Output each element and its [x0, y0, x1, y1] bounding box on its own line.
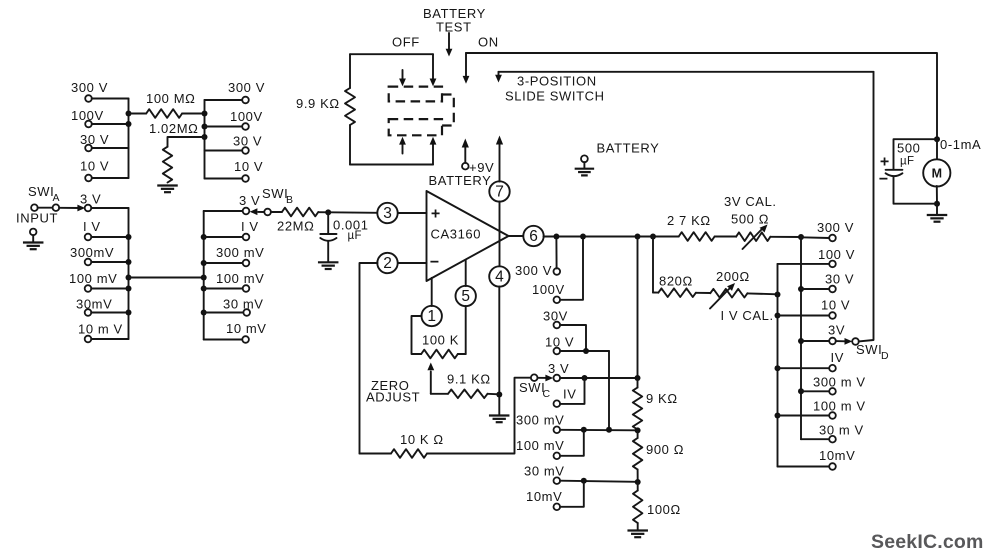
wire 1V row [91, 236, 128, 238]
wire 300V right [205, 99, 243, 101]
potentiometer 500 ohm (3V CAL) [736, 232, 770, 241]
resistor 820 ohm [658, 288, 696, 297]
node 3V terminal (SWID) [829, 338, 836, 345]
node 300mV terminal (SWID) [829, 388, 836, 395]
svg-text:0-1mA: 0-1mA [940, 137, 981, 152]
pin 1 [422, 306, 442, 326]
svg-text:100 mV: 100 mV [216, 271, 264, 286]
wire 3V row [91, 207, 128, 209]
svg-text:B: B [286, 194, 293, 206]
wire OFF loop top [350, 53, 433, 55]
svg-text:3 V: 3 V [80, 192, 101, 207]
svg-text:−: − [879, 171, 888, 188]
svg-text:+9V: +9V [469, 160, 494, 175]
node 100mV terminal [85, 285, 92, 292]
svg-text:300 V: 300 V [228, 80, 265, 95]
wire 10V right [205, 178, 243, 180]
wire SWIC 30mV row [560, 481, 638, 482]
wire SWIC 300mV row [560, 429, 638, 432]
arrow 500 pot wiper [743, 229, 763, 249]
wire SWIC 10mV right+up [560, 481, 584, 507]
node 30V right terminal [242, 147, 249, 154]
svg-text:3 V: 3 V [239, 193, 260, 208]
wire SWIB wiper [258, 211, 264, 213]
arrow battery test [448, 33, 450, 50]
svg-text:I V: I V [241, 219, 259, 234]
switch slide body upper (dashed) [389, 87, 442, 102]
wire 10mV row [91, 338, 128, 340]
ground below meter [927, 215, 948, 222]
svg-text:300 V: 300 V [515, 263, 552, 278]
ground at INPUT [23, 229, 44, 250]
junction meter top [934, 136, 940, 142]
wire pin3 to opamp [398, 212, 427, 214]
node 10mV terminal [85, 336, 92, 343]
switch slide body lower (dashed) [389, 119, 442, 135]
junction 9K/900 [635, 427, 641, 433]
wire SWID 10mV row [778, 466, 830, 468]
junction 22M/cap node [325, 209, 331, 215]
junction 3VCAL/bus1 [798, 234, 804, 240]
wire 820 to 200 pot [696, 292, 710, 294]
wire cap500 top lead [894, 139, 938, 169]
svg-text:100V: 100V [532, 282, 565, 297]
resistor 100 Mohm [146, 109, 182, 118]
wire left bus (upper-left group) [128, 99, 130, 179]
svg-text:4: 4 [495, 269, 504, 286]
wire pin5 to triangle [465, 260, 467, 286]
potentiometer 200 ohm (1V CAL) [710, 289, 747, 298]
svg-text:300mV: 300mV [70, 245, 114, 260]
wire right bus (upper-left group) [204, 100, 206, 179]
wire +9V up arrow [464, 146, 466, 163]
svg-text:D: D [881, 350, 889, 362]
node 10V left terminal [85, 175, 92, 182]
node 10mV terminal (SWIB) [242, 336, 249, 343]
node 1V terminal (SWID) [829, 365, 836, 372]
arrow pot wiper [427, 363, 434, 371]
svg-text:300 mV: 300 mV [516, 413, 564, 428]
svg-text:200Ω: 200Ω [716, 269, 750, 284]
svg-text:100V: 100V [71, 108, 104, 123]
svg-text:I V CAL.: I V CAL. [721, 308, 774, 323]
wire apex to pin6 [509, 235, 524, 237]
svg-text:3-POSITION: 3-POSITION [517, 74, 597, 89]
svg-text:CA3160: CA3160 [431, 227, 482, 242]
node 10V terminal (SWID) [829, 312, 836, 319]
svg-text:30 mV: 30 mV [223, 297, 264, 312]
wire SWID 100mV row [778, 415, 830, 417]
wire 10V to left bus [92, 177, 129, 179]
wire left bus (lower-left group) [128, 208, 130, 339]
wire OFF loop bottom [350, 164, 433, 166]
node 3V terminal (SWIC) [554, 375, 561, 382]
svg-text:1: 1 [427, 308, 436, 325]
svg-text:30 V: 30 V [80, 132, 109, 147]
wire R22M to node [318, 211, 377, 214]
svg-text:100 mV: 100 mV [69, 271, 117, 286]
svg-text:2 7 KΩ: 2 7 KΩ [667, 213, 711, 228]
svg-text:+: + [880, 154, 889, 171]
wire SWID 100V row [778, 263, 830, 265]
wire 900 top stub [637, 430, 639, 438]
svg-text:ADJUST: ADJUST [366, 390, 420, 405]
wire SWID 300mV row [801, 390, 829, 392]
svg-text:30V: 30V [543, 309, 568, 324]
node 100V terminal (SWIC) [554, 297, 561, 304]
wire pin4 down to ground [498, 287, 500, 416]
svg-text:µF: µF [348, 230, 362, 242]
wire SWID 10V row [778, 315, 830, 317]
wire SWIC 3V row to divider [560, 377, 638, 379]
pin 6 [523, 226, 543, 246]
svg-text:100Ω: 100Ω [647, 502, 681, 517]
node 30mV terminal (SWID) [829, 436, 836, 443]
svg-text:5: 5 [461, 288, 470, 305]
node 300mV terminal (SWIB) [243, 260, 250, 267]
wire R1.02M top lead [168, 137, 205, 147]
svg-text:SWI: SWI [28, 184, 54, 199]
junction rbus/300mV [201, 260, 207, 266]
resistor 9 Kohm [633, 388, 642, 430]
wire crosswire between groups [129, 277, 204, 279]
resistor 9.9 Kohm [345, 88, 355, 125]
wire SWIC 100mV right+up [560, 430, 584, 456]
wire meter top lead [936, 139, 938, 160]
svg-text:BATTERY: BATTERY [429, 173, 492, 188]
node 30V left terminal [85, 145, 92, 152]
junction 900/100 [635, 479, 641, 485]
svg-text:OFF: OFF [392, 35, 420, 50]
node 300V terminal (SWID) [829, 235, 836, 242]
wire R100M left lead [129, 113, 147, 115]
wire 30mV row [91, 312, 128, 314]
junction 3V/1V riser [582, 375, 588, 381]
wire SWIC wiper [537, 377, 547, 379]
wire 900 bottom stub [637, 470, 639, 483]
wire 500 pot to SWID bus1 [770, 236, 801, 238]
wire 9.9K bottom lead [349, 125, 351, 165]
svg-text:M: M [932, 166, 942, 180]
resistor 900 ohm [633, 438, 642, 470]
wire slide switch to SWID (second) [499, 71, 874, 73]
pin 4 [489, 266, 509, 286]
resistor 1.02 Mohm [163, 147, 172, 183]
svg-text:30 V: 30 V [233, 134, 262, 149]
svg-text:IV: IV [563, 387, 576, 402]
svg-text:500: 500 [897, 141, 921, 156]
wire 100 top stub [637, 482, 639, 491]
switch SWI_C arrow [545, 375, 553, 382]
wire pole to R22M [271, 211, 282, 213]
wire SWI_A wiper [59, 207, 79, 209]
wire 9.9K top lead [349, 54, 351, 88]
svg-text:INPUT: INPUT [16, 211, 58, 226]
wire 30mV row right [204, 312, 244, 314]
junction 1VCAL/bus2 [775, 292, 781, 298]
svg-text:3: 3 [383, 205, 392, 222]
wire cap stem bottom [327, 242, 329, 262]
resistor 2.7 Kohm [679, 232, 715, 241]
wire SWID bus2 [777, 264, 779, 467]
wire 300V to left bus [92, 98, 129, 100]
wire 10K left lead [360, 453, 392, 455]
switch SWI_C pole [531, 374, 538, 381]
wire SWID 3V wiper [836, 340, 847, 342]
wire 300mV row right [204, 262, 243, 264]
arrow 200 pot wiper [710, 289, 730, 309]
svg-text:10 V: 10 V [80, 159, 109, 174]
ground below pin4 [489, 416, 510, 423]
node 300V terminal (SWIC) [554, 268, 561, 275]
wire 2.7K to 500 pot [715, 236, 737, 238]
svg-text:SWI: SWI [519, 380, 545, 395]
junction left bus / R 100M [126, 111, 132, 117]
svg-text:SWI: SWI [262, 186, 288, 201]
node 300V right terminal [242, 97, 249, 104]
node 300mV terminal [85, 259, 92, 266]
node 10V terminal (SWIC) [554, 348, 561, 355]
pin 7 [489, 181, 509, 201]
node 30mV terminal (SWIC) [554, 477, 561, 484]
svg-text:10 mV: 10 mV [226, 321, 267, 336]
svg-text:1.02MΩ: 1.02MΩ [149, 121, 198, 136]
node 1V terminal (SWIC) [554, 400, 561, 407]
wire 1V row right [204, 236, 243, 238]
svg-text:9 KΩ: 9 KΩ [646, 391, 678, 406]
svg-text:100 MΩ: 100 MΩ [146, 91, 195, 106]
junction out/SWIC100V [580, 234, 586, 240]
junction 30V/10V [583, 348, 589, 354]
junction bus/100mV [126, 286, 132, 292]
junction bus/30mV [126, 310, 132, 316]
svg-text:100 K: 100 K [422, 333, 459, 348]
node 30mV terminal [85, 309, 92, 316]
switch SWI_A arrow [77, 205, 85, 212]
switch SWI_B pole [264, 209, 271, 216]
junction bus/1V [126, 234, 132, 240]
junction out/divider [635, 234, 641, 240]
resistor 100 ohm [633, 491, 642, 524]
wire 30V right [205, 150, 243, 152]
svg-text:SWI: SWI [856, 342, 882, 357]
wire pin1 to triangle [431, 278, 433, 306]
meter M 0-1mA [923, 159, 950, 186]
svg-text:9.9 KΩ: 9.9 KΩ [296, 96, 340, 111]
capacitor 0.001uF [320, 234, 336, 241]
junction bus2/100mV [775, 413, 781, 419]
svg-text:30mV: 30mV [76, 297, 112, 312]
wire pin7 to pin4 through triangle [499, 202, 501, 267]
wire cap500 bottom lead [894, 177, 938, 204]
junction rbus/30mV [201, 310, 207, 316]
junction rbus/1V [201, 234, 207, 240]
wire pin6 output row [544, 236, 679, 238]
node 100mV terminal (SWIB) [243, 285, 250, 292]
svg-text:10 K Ω: 10 K Ω [400, 432, 444, 447]
wire 300mV row [91, 261, 128, 263]
junction 300mV/100mV riser [581, 427, 587, 433]
junction bus1/300mV [798, 388, 804, 394]
svg-text:22MΩ: 22MΩ [277, 219, 314, 234]
node 100mV terminal (SWID) [829, 412, 836, 419]
resistor 9.1 Kohm [448, 390, 488, 399]
svg-text:10mV: 10mV [526, 489, 562, 504]
switch SWI_A pole [53, 204, 60, 211]
svg-text:TEST: TEST [436, 20, 472, 35]
svg-text:10 m V: 10 m V [78, 322, 123, 337]
svg-text:BATTERY: BATTERY [597, 141, 660, 156]
switch SWI_D arrow [845, 338, 853, 345]
wire 3V row right [204, 210, 243, 212]
svg-text:30 V: 30 V [825, 272, 854, 287]
svg-text:C: C [543, 388, 551, 400]
svg-text:3V CAL.: 3V CAL. [724, 194, 777, 209]
ground battery [575, 155, 595, 175]
svg-text:820Ω: 820Ω [659, 274, 693, 289]
wire 100 bottom stub [637, 523, 639, 530]
junction bus/crosswire [126, 275, 132, 281]
svg-text:100V: 100V [230, 109, 263, 124]
svg-text:100 V: 100 V [818, 247, 855, 262]
junction crosswire right [201, 275, 207, 281]
wire SWIC 100V right+up [560, 240, 583, 300]
switch SWI_D pole [852, 338, 859, 345]
svg-text:100 mV: 100 mV [516, 438, 564, 453]
wire pot wiper stem [430, 372, 432, 394]
junction right bus / 100V [202, 124, 208, 130]
wire SWID 30mV row [801, 438, 829, 440]
svg-text:10 V: 10 V [234, 159, 263, 174]
svg-text:ON: ON [478, 35, 499, 50]
ground below R1.02M [157, 186, 178, 193]
node 100V left terminal [85, 121, 92, 128]
svg-text:I V: I V [83, 219, 101, 234]
junction meter bottom [934, 201, 940, 207]
junction 30mV/10mV riser [581, 478, 587, 484]
node +9V terminal [462, 163, 469, 170]
node 300mV terminal (SWIC) [554, 427, 561, 434]
svg-text:SLIDE SWITCH: SLIDE SWITCH [505, 89, 605, 104]
svg-text:IV: IV [831, 350, 844, 365]
switch SWI_B arrow [250, 208, 258, 215]
node 3V terminal (SWIB) [243, 208, 250, 215]
node 10V right terminal [242, 175, 249, 182]
wire 9K top stub [637, 378, 639, 388]
svg-text:300 V: 300 V [71, 80, 108, 95]
node 10mV terminal (SWID) [829, 463, 836, 470]
wire 10V row down to 300mV [608, 351, 610, 430]
wire SWIC 30V right+down [560, 325, 586, 351]
junction bus1/30V [798, 286, 804, 292]
junction out/820 branch [650, 234, 656, 240]
node 100V right terminal [242, 123, 249, 130]
wire 100mV row [91, 288, 128, 290]
wire cap stem top [327, 212, 329, 233]
wire SWID 1V row [778, 367, 830, 369]
node 1V terminal (SWIB) [243, 234, 250, 241]
resistor 22 Mohm [282, 208, 318, 217]
wire 100mV row right [204, 288, 243, 290]
wire SWIC 300V up to out [555, 240, 557, 269]
wire ON to meter (top) [466, 53, 937, 139]
junction divider top [635, 375, 641, 381]
node 10mV terminal (SWIC) [554, 504, 561, 511]
svg-text:2: 2 [383, 255, 392, 272]
junction out/SWIC300V [553, 234, 559, 240]
wire pin5 down to pot [465, 306, 467, 354]
node 30mV terminal (SWIB) [243, 309, 250, 316]
node 300V left terminal (upper-left group) [85, 95, 92, 102]
wire 100V right [205, 126, 243, 128]
wire SWIC 1V right+up [560, 378, 585, 404]
junction bus/300mV [126, 259, 132, 265]
junction bus2/10V [775, 313, 781, 319]
wire OFF arm down arrow [432, 54, 434, 79]
svg-text:300 m V: 300 m V [813, 375, 866, 390]
wire meter ground stub [936, 204, 938, 215]
wire SWID 300V row [801, 236, 829, 239]
wire 200 pot to SWID bus2 [748, 292, 778, 295]
wire slide-switch arm down arrow [498, 72, 500, 76]
wire 10mV row right [204, 339, 243, 341]
junction right bus / R1.02M [202, 134, 208, 140]
pin 3 [377, 203, 397, 223]
svg-text:+: + [431, 206, 440, 223]
node INPUT terminal [31, 204, 38, 211]
ground below divider [627, 531, 648, 538]
wire SWID pole up to slide switch [859, 72, 874, 342]
wire wiper to 9.1K [431, 393, 448, 395]
node 100V terminal (SWID) [829, 261, 836, 268]
wire pin2 to opamp [398, 262, 427, 264]
svg-text:3 V: 3 V [548, 361, 569, 376]
svg-text:10 V: 10 V [821, 298, 850, 313]
node 30V terminal (SWID) [829, 286, 836, 293]
svg-text:10 V: 10 V [545, 335, 574, 350]
pin 2 [377, 253, 397, 273]
wire divider riser from output [637, 237, 639, 379]
switch slide link (dashed) [442, 95, 454, 126]
junction rbus/100mV [201, 286, 207, 292]
potentiometer 100K [421, 350, 458, 359]
junction left bus / 100V [126, 121, 132, 127]
arrow switch contact top-left [402, 70, 404, 80]
wire 820 left stub [653, 292, 658, 294]
wire SWID 3V row [801, 340, 829, 342]
svg-text:900 Ω: 900 Ω [646, 442, 684, 457]
svg-text:500 Ω: 500 Ω [731, 212, 769, 227]
svg-text:9.1 KΩ: 9.1 KΩ [447, 372, 491, 387]
node 30V terminal (SWIC) [554, 322, 561, 329]
wire ON arm down arrow [465, 53, 467, 77]
svg-text:30 mV: 30 mV [524, 464, 565, 479]
svg-text:3V: 3V [828, 323, 845, 338]
junction pin4/9.1K [496, 392, 502, 398]
wire R100M right lead [182, 113, 204, 115]
svg-text:300 mV: 300 mV [216, 245, 264, 260]
wire SWID 30V row [801, 288, 829, 290]
capacitor 500uF [886, 170, 903, 176]
svg-text:7: 7 [495, 184, 504, 201]
svg-text:10mV: 10mV [819, 448, 855, 463]
wire moving contact up arrow [432, 144, 434, 165]
svg-text:−: − [430, 254, 439, 271]
svg-text:µF: µF [900, 156, 914, 168]
junction bus1/3V [798, 338, 804, 344]
junction bus2/1V [775, 365, 781, 371]
wire pin7 riser+arrow [499, 143, 501, 182]
